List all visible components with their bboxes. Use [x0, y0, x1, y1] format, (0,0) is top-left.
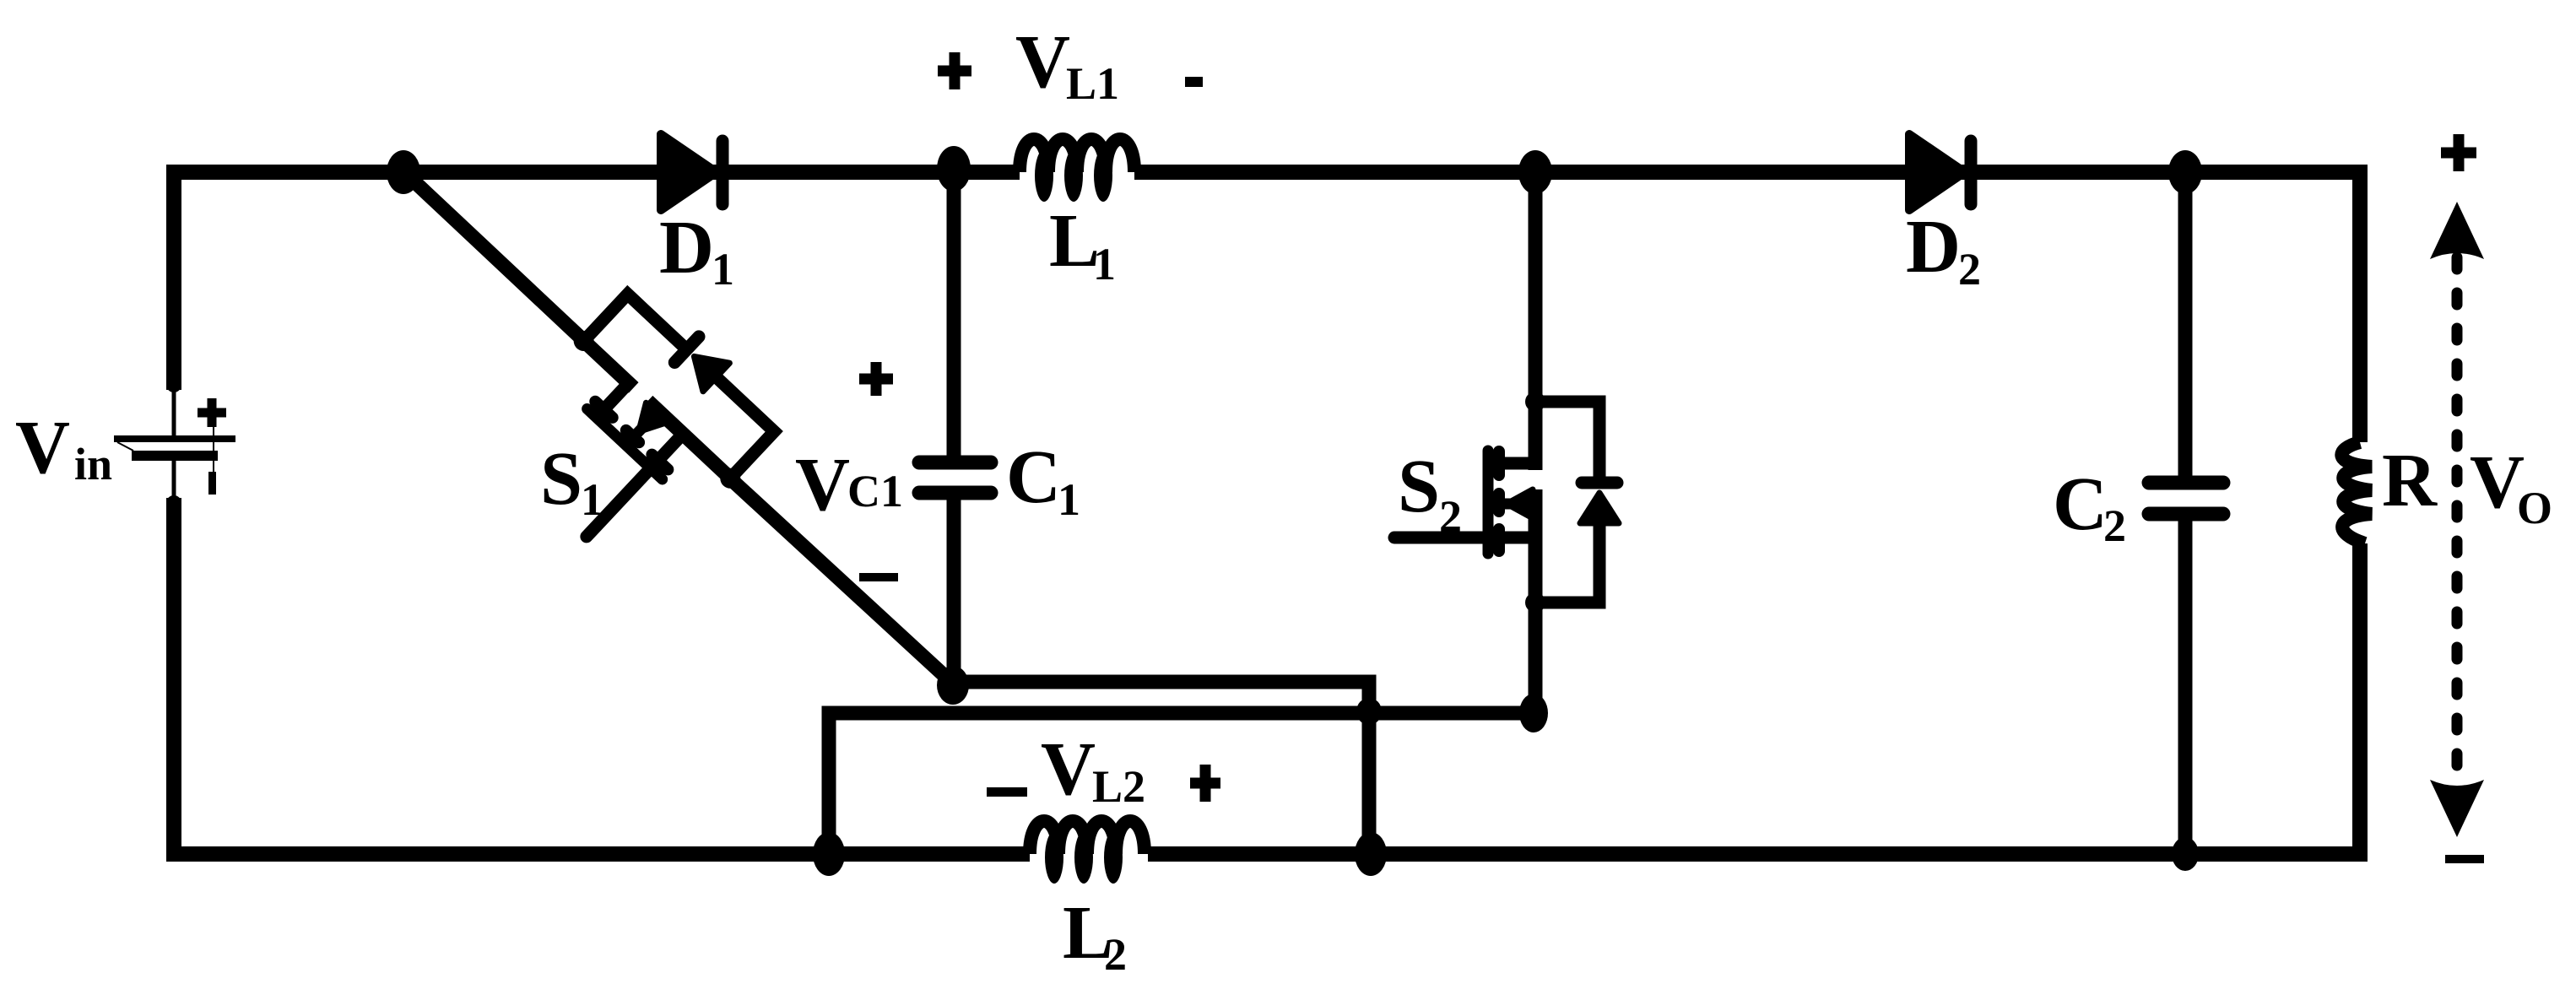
- svg-text:V: V: [795, 443, 850, 527]
- diode D1 triangle: [661, 134, 717, 210]
- battery Vin thin lead top: [172, 386, 176, 437]
- svg-text:2: 2: [2103, 500, 2126, 551]
- node dot S2 top: [1518, 150, 1552, 194]
- label - VL2 +: [987, 787, 1027, 797]
- node C2 top dot: [2168, 150, 2202, 194]
- Vo arrow up head: [2430, 202, 2484, 259]
- svg-text:S: S: [540, 437, 582, 521]
- inductor L1 loops: [1035, 149, 1053, 202]
- wire: left vertical + top wire left segment: [174, 172, 1020, 390]
- L2 bypass rectangle left vertical: [829, 713, 1369, 854]
- capacitor C2 top lead: [2178, 172, 2193, 483]
- diode D2 cathode bar: [1965, 141, 1978, 204]
- switch S2 source lead: [1529, 597, 1543, 713]
- svg-text:1: 1: [712, 244, 734, 295]
- svg-text:2: 2: [1104, 929, 1127, 980]
- L2 bypass rectangle right vertical: [1362, 713, 1377, 854]
- svg-text:2: 2: [1958, 244, 1981, 295]
- svg-text:L1: L1: [1066, 58, 1119, 109]
- svg-text:1: 1: [1058, 474, 1080, 525]
- wire junction to S2 source node: [1369, 706, 1534, 721]
- battery plate diagonal artifact: [117, 442, 133, 451]
- svg-text:1: 1: [581, 474, 603, 525]
- node dot S2 bottom: [1519, 694, 1548, 732]
- svg-text:L2: L2: [1092, 761, 1145, 812]
- switch S1 source lead (diagonal): [730, 478, 953, 684]
- Vo minus sign: [2445, 855, 2484, 863]
- svg-text:2: 2: [1439, 491, 1462, 542]
- switch S2: [1394, 392, 1619, 613]
- capacitor C1 bottom plate: [919, 486, 991, 500]
- svg-text:C1: C1: [847, 466, 903, 516]
- svg-text:C: C: [1006, 435, 1061, 519]
- junction dot rect corner: [1356, 698, 1382, 725]
- battery top plate: [114, 435, 235, 442]
- Vo arrow down head: [2430, 780, 2484, 837]
- battery minus tick: [208, 472, 216, 495]
- label + VL1 -: [938, 52, 971, 89]
- resistor R squiggle: [2341, 442, 2372, 543]
- capacitor C1 top lead: [947, 172, 961, 462]
- node B dot: [937, 666, 969, 705]
- Vo plus sign: [2441, 134, 2476, 171]
- node C2 bottom dot: [2172, 837, 2199, 871]
- svg-text:D: D: [1906, 205, 1961, 289]
- capacitor C1 bottom lead: [947, 493, 961, 684]
- battery thin lead bottom: [172, 461, 176, 501]
- svg-text:1: 1: [1093, 239, 1116, 289]
- Vo dashed line: [2452, 257, 2463, 781]
- switch S1 (mosfet rotated): [480, 273, 795, 588]
- diode D2 triangle: [1909, 134, 1965, 210]
- battery bottom plate: [132, 451, 218, 461]
- switch S2 drain lead: [1529, 172, 1543, 407]
- svg-text:C: C: [2053, 462, 2108, 546]
- svg-text:O: O: [2517, 483, 2552, 533]
- svg-text:V: V: [1041, 727, 1096, 811]
- switch S1 drain lead (diagonal): [404, 172, 584, 341]
- capacitor C2 bottom plate: [2149, 507, 2223, 522]
- wire node B to S2 column corner: [953, 682, 1369, 713]
- svg-text:V: V: [15, 406, 70, 489]
- inductor L2 loops: [1045, 831, 1063, 884]
- capacitor C2 top plate: [2149, 476, 2223, 490]
- svg-text:in: in: [74, 439, 112, 489]
- inductor L1 humps: [1020, 139, 1134, 172]
- capacitor C2 bottom lead: [2178, 514, 2193, 854]
- svg-text:D: D: [659, 206, 714, 289]
- minus below VC1: [859, 573, 898, 581]
- node dot bottom-right of rectangle: [1355, 832, 1387, 876]
- svg-text:V: V: [1015, 20, 1070, 104]
- diode D1 cathode bar: [717, 141, 729, 204]
- battery plus sign: [198, 398, 226, 427]
- node A dot: [387, 150, 420, 194]
- inductor L2 humps: [1030, 821, 1145, 854]
- battery thin vertical line: [213, 426, 214, 473]
- wire: bottom wire right segment + R bottom lead: [1148, 543, 2360, 854]
- plus above VC1: [859, 362, 893, 396]
- svg-text:S: S: [1398, 445, 1440, 528]
- wire: left vertical bottom + bottom wire left segment: [174, 498, 1030, 854]
- wire stub rounded end bottom: [166, 503, 181, 549]
- node dot bottom-left of rectangle: [813, 832, 845, 876]
- svg-text:R: R: [2382, 439, 2438, 522]
- capacitor C1 top plate: [919, 456, 991, 470]
- node C1-top dot: [937, 146, 971, 192]
- wire: top wire right segment + R top lead: [1134, 172, 2360, 442]
- wire stub rounded end top: [166, 338, 181, 385]
